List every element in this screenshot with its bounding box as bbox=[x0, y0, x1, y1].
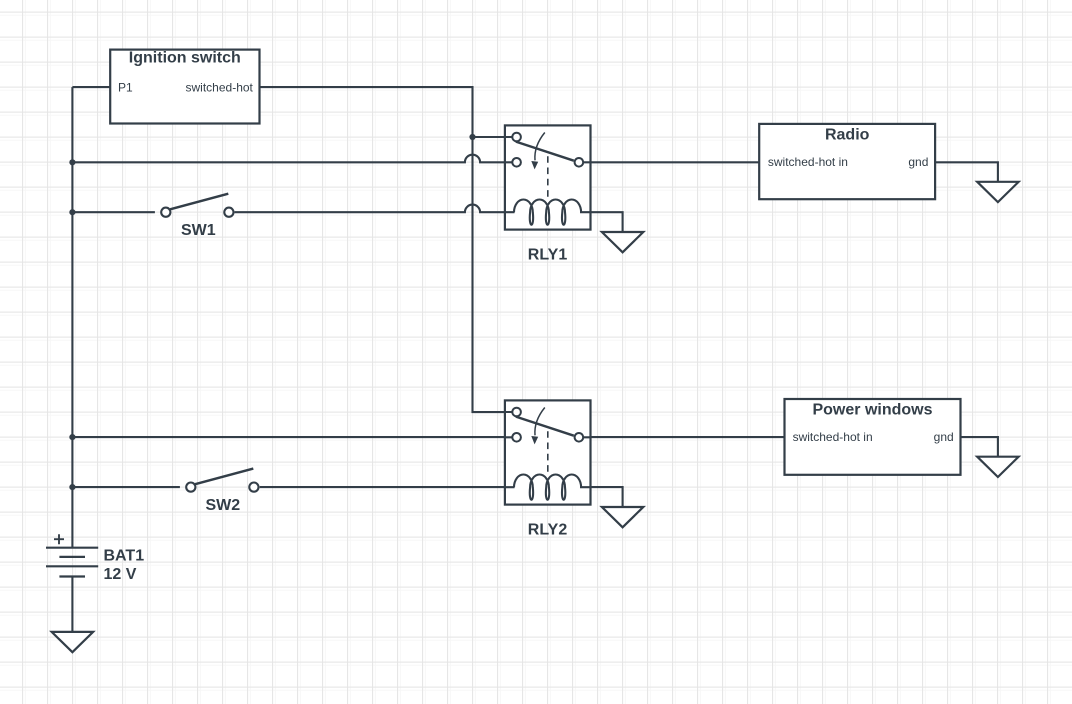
ground RLY1 coil bbox=[602, 232, 643, 252]
svg-text:BAT1: BAT1 bbox=[104, 548, 145, 565]
switch SW2 terminals bbox=[186, 483, 195, 492]
node: junction at RLY1 branch bbox=[469, 134, 475, 140]
block U1 Ignition switch bbox=[110, 50, 259, 124]
svg-text:SW2: SW2 bbox=[205, 497, 240, 514]
node: junction bus/SW2 row bbox=[69, 484, 75, 490]
wire: left vertical bus (battery +) bbox=[71, 87, 73, 548]
svg-text:switched-hot: switched-hot bbox=[186, 81, 254, 95]
node: junction bus/RLY2 row bbox=[69, 434, 75, 440]
wire: RLY2 coil to ground bbox=[581, 487, 623, 507]
ground power windows bbox=[977, 457, 1018, 477]
wire: bus to SW2 bbox=[72, 486, 179, 488]
switch SW1 lever bbox=[170, 194, 228, 210]
relay RLY2 body bbox=[505, 400, 591, 504]
wire: battery to ground bbox=[71, 577, 73, 632]
block Power windows bbox=[785, 399, 961, 475]
wire: bus to RLY1 NO pin with hop bbox=[72, 155, 512, 163]
wire: RLY2 output to Power windows bbox=[583, 436, 784, 438]
svg-text:Radio: Radio bbox=[825, 126, 870, 143]
svg-text:P1: P1 bbox=[118, 81, 133, 95]
relay RLY1 coil bbox=[514, 199, 581, 224]
svg-text:gnd: gnd bbox=[934, 430, 954, 444]
svg-text:12 V: 12 V bbox=[104, 566, 137, 583]
relay RLY2 internal pin stubs bbox=[505, 412, 591, 487]
relay RLY2 switch lever bbox=[516, 417, 574, 436]
wire: Radio gnd to ground bbox=[935, 162, 998, 182]
relay RLY1 internal pin stubs bbox=[505, 137, 591, 212]
wire: RLY1 output to Radio bbox=[583, 161, 759, 163]
svg-text:gnd: gnd bbox=[908, 155, 928, 169]
relay RLY2 coil link (dashed) bbox=[547, 431, 549, 472]
relay RLY2 pin terminal circles bbox=[512, 408, 521, 417]
ground radio bbox=[977, 182, 1018, 202]
wire: Power windows gnd to ground bbox=[960, 437, 998, 457]
svg-text:Power windows: Power windows bbox=[812, 401, 932, 418]
wire: ignition switched-hot down to relays bbox=[259, 87, 512, 412]
relay RLY1 switch lever bbox=[516, 142, 574, 161]
wire: bus to SW1 bbox=[72, 211, 154, 213]
wire: ignition P1 to left bus bbox=[72, 86, 110, 88]
relay RLY1 pin terminal circles bbox=[512, 133, 521, 142]
svg-text:Ignition switch: Ignition switch bbox=[129, 49, 241, 66]
svg-text:switched-hot in: switched-hot in bbox=[768, 155, 848, 169]
wire: SW2 to RLY2 coil bbox=[260, 486, 515, 488]
switch SW2 lever bbox=[195, 469, 253, 485]
wire: SW1 to RLY1 coil with hop bbox=[235, 205, 515, 213]
relay RLY2 actuation arrow bbox=[535, 408, 545, 436]
node: junction bus/RLY1 row bbox=[69, 159, 75, 165]
node: junction bus/SW1 row bbox=[69, 209, 75, 215]
relay RLY1 body bbox=[505, 125, 591, 229]
block Radio bbox=[759, 124, 935, 199]
svg-text:RLY2: RLY2 bbox=[528, 521, 568, 538]
wire: bus to RLY2 NO pin bbox=[72, 436, 512, 438]
switch SW1 terminals bbox=[161, 208, 170, 217]
wire: RLY1 coil to ground bbox=[581, 212, 623, 232]
battery BAT1 plus sign bbox=[54, 534, 64, 544]
wire: branch to RLY1 common pin bbox=[473, 136, 513, 138]
svg-text:SW1: SW1 bbox=[181, 222, 216, 239]
ground RLY2 coil bbox=[602, 507, 643, 527]
relay RLY1 actuation arrow bbox=[535, 133, 545, 161]
svg-text:RLY1: RLY1 bbox=[528, 246, 568, 263]
battery BAT1 plates bbox=[46, 548, 98, 577]
relay RLY2 coil bbox=[514, 474, 581, 499]
svg-text:switched-hot in: switched-hot in bbox=[793, 430, 873, 444]
relay RLY1 coil link (dashed) bbox=[547, 156, 549, 197]
ground battery bbox=[52, 632, 93, 652]
